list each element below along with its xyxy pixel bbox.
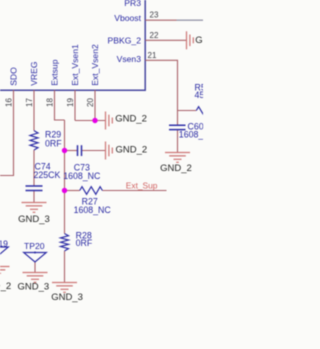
svg-text:GND_3: GND_3	[18, 214, 50, 225]
svg-text:TP19: TP19	[0, 238, 8, 248]
svg-text:Ext_Vsen1: Ext_Vsen1	[70, 44, 80, 86]
svg-text:21: 21	[148, 51, 157, 60]
svg-text:0RF: 0RF	[45, 138, 62, 148]
svg-text:23: 23	[150, 10, 159, 19]
svg-text:0RF: 0RF	[76, 238, 93, 248]
svg-text:Extsup: Extsup	[50, 59, 60, 85]
svg-text:Ext_Vsen2: Ext_Vsen2	[90, 44, 100, 86]
svg-text:TP20: TP20	[24, 241, 45, 251]
svg-text:Vsen3: Vsen3	[117, 54, 142, 64]
svg-text:PBKG_2: PBKG_2	[108, 35, 142, 45]
svg-text:GND_2: GND_2	[0, 281, 11, 292]
svg-text:GND_2: GND_2	[195, 35, 203, 46]
svg-text:1608_NC: 1608_NC	[179, 130, 203, 140]
svg-text:19: 19	[66, 98, 75, 107]
svg-text:16: 16	[4, 98, 13, 107]
svg-text:GND_3: GND_3	[51, 292, 83, 303]
svg-text:17: 17	[25, 98, 34, 107]
svg-text:18: 18	[45, 98, 54, 107]
svg-text:1608_NC: 1608_NC	[63, 171, 101, 181]
svg-text:GND_2: GND_2	[115, 114, 147, 125]
svg-text:Vboost: Vboost	[114, 13, 141, 23]
svg-text:1608_NC: 1608_NC	[74, 205, 112, 215]
svg-text:20: 20	[86, 98, 95, 107]
svg-text:VREG: VREG	[29, 61, 39, 86]
svg-text:GND_2: GND_2	[160, 163, 192, 174]
svg-text:Ext_Sup: Ext_Sup	[126, 180, 158, 190]
svg-text:225CK: 225CK	[34, 170, 61, 180]
svg-text:SDO: SDO	[9, 67, 19, 86]
svg-text:453: 453	[195, 90, 204, 100]
svg-text:GND_3: GND_3	[18, 282, 50, 293]
svg-text:GND_2: GND_2	[116, 145, 148, 156]
svg-text:22: 22	[150, 31, 159, 40]
svg-text:PR3: PR3	[124, 0, 141, 8]
